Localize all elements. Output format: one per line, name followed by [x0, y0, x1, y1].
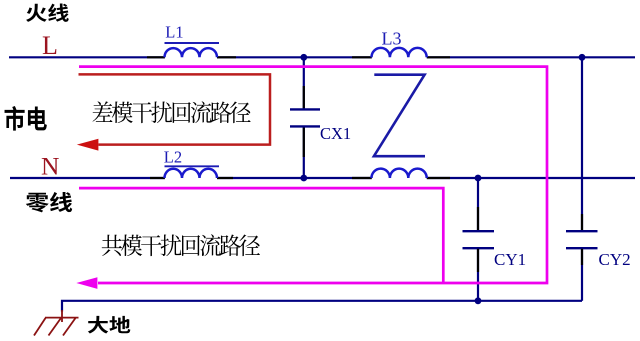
wire stub (black) right of choke winding	[427, 177, 450, 179]
capacitor CY1 lead bottom	[477, 248, 479, 301]
label 大地 (earth)	[88, 316, 131, 334]
inductor L2 bar	[165, 165, 220, 167]
capacitor CX1 plates	[290, 108, 320, 110]
capacitor CY2 lead top	[581, 57, 583, 231]
wire stub (black) left of L1	[147, 56, 165, 58]
svg-text:N: N	[41, 152, 59, 181]
wire: neutral line N (bottom)	[10, 177, 635, 179]
common-mode path arrowhead	[78, 278, 97, 289]
inductor L3 coil	[372, 48, 427, 57]
wire stub (black) left of L2	[150, 177, 165, 179]
differential-mode path arrowhead	[78, 139, 98, 150]
inductor L2 coil	[165, 169, 218, 178]
text 共模干扰回流路径 (common-mode interference return path)	[102, 234, 260, 256]
junction node: CY2 top on L wire	[579, 54, 586, 61]
junction node: CX1 bottom on N wire	[300, 175, 307, 182]
inductor L1 bar	[165, 42, 220, 44]
svg-text:CX1: CX1	[320, 124, 351, 143]
common-mode return path (magenta) outer wire	[79, 67, 547, 283]
capacitor CY1 plates	[463, 230, 495, 232]
junction node: CY1 top on N wire	[475, 175, 482, 182]
capacitor CY2 lead bottom	[581, 248, 583, 301]
capacitor CY1 lead top	[477, 178, 479, 231]
svg-text:L3: L3	[382, 28, 402, 48]
svg-text:L2: L2	[164, 148, 182, 167]
text 差模干扰回流路径 (differential-mode interference return path)	[93, 101, 251, 123]
capacitor CX1 lead top	[303, 57, 305, 109]
svg-text:L: L	[42, 31, 58, 60]
wire: earth/ground bus	[62, 301, 582, 312]
label 零线 (neutral wire)	[26, 192, 72, 212]
wire: live line L (top)	[9, 56, 635, 58]
common-mode choke winding (bottom coil)	[372, 169, 427, 178]
wire stub (black) left of choke winding	[352, 177, 372, 179]
wire stub (black) right of L2	[217, 177, 233, 179]
wire stub (black) right of L1	[217, 56, 236, 58]
capacitor CY2 plates	[566, 230, 598, 232]
inductor L1 coil	[165, 48, 218, 57]
common-mode choke impedance Z symbol	[374, 75, 425, 157]
junction node: CY1 bottom on ground bus	[475, 297, 482, 304]
wire stub (black) left of L3	[352, 56, 372, 58]
ground symbol (earth)	[34, 310, 79, 336]
differential-mode return path (red) wire	[79, 74, 271, 144]
svg-text:CY2: CY2	[599, 250, 631, 269]
capacitor CX1 lead bottom	[303, 126, 305, 178]
label 火线 (live wire)	[26, 4, 69, 22]
svg-text:CY1: CY1	[494, 250, 526, 269]
junction node: CX1 top on L wire	[300, 54, 307, 61]
wire stub (black) right of L3	[427, 56, 450, 58]
svg-text:L1: L1	[165, 23, 183, 42]
label 市电 (mains)	[5, 106, 47, 131]
common-mode return path (magenta) inner wire	[79, 188, 443, 283]
